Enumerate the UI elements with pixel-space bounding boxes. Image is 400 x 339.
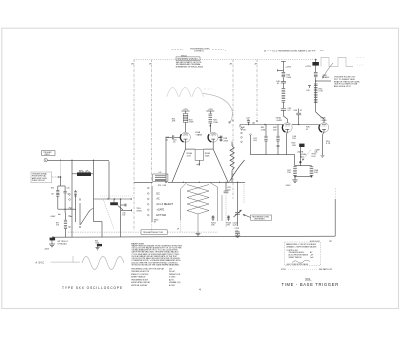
boxed note: triggering level centering xyxy=(251,215,272,220)
internal trigger pickoff pot (dark) xyxy=(72,160,94,176)
dashed linkage to selector xyxy=(68,231,141,233)
capacitor C20 xyxy=(64,191,67,193)
svg-text:470K: 470K xyxy=(223,140,228,142)
wire: right feedback vertical xyxy=(334,199,336,236)
+225V tick V24A plate xyxy=(182,109,190,114)
svg-text:27K: 27K xyxy=(226,225,230,227)
svg-text:4.7K: 4.7K xyxy=(187,155,192,157)
svg-text:CENTERING: CENTERING xyxy=(254,219,265,221)
note: trigger signal from vertical amplifier xyxy=(31,172,52,183)
R41 divider leg xyxy=(264,125,267,155)
node: cathode junction xyxy=(299,161,301,163)
R43 divider leg xyxy=(276,125,279,155)
svg-text:-150V: -150V xyxy=(285,185,291,187)
svg-text:HORIZONTAL DISPLAY: HORIZONTAL DISPLAY xyxy=(131,281,151,284)
tube V45B xyxy=(319,123,329,133)
V45A tube xyxy=(276,117,293,133)
svg-text:TYPE 5XX OSCILLOSCOPE: TYPE 5XX OSCILLOSCOPE xyxy=(62,286,123,290)
TRIGGER INPUT connector xyxy=(42,151,110,162)
svg-text:TRIGGERING MODE: TRIGGERING MODE xyxy=(131,279,149,281)
svg-text:STABILITY CONTROL: STABILITY CONTROL xyxy=(131,273,149,276)
resistor R24 network box xyxy=(195,150,204,161)
svg-text:AND DIODE V152: AND DIODE V152 xyxy=(334,85,352,88)
wafer 2R contact xyxy=(232,120,234,122)
svg-text:22K: 22K xyxy=(273,129,277,131)
trigger pulse note text (right) xyxy=(334,77,360,89)
dashed linkage to pot xyxy=(103,200,114,229)
svg-text:180: 180 xyxy=(122,215,125,217)
input attenuator branch xyxy=(51,160,76,210)
svg-text:9.0V: 9.0V xyxy=(311,156,316,158)
+225V rail 1 (V45A plate chain) xyxy=(276,62,292,123)
V24B tube xyxy=(173,132,229,143)
svg-text:NUMBERING OF SW101-SW20: NUMBERING OF SW101-SW20 xyxy=(176,66,203,68)
switch wiring lattice xyxy=(181,182,188,189)
wire: divider column xyxy=(120,199,122,237)
capacitor C44 (dark) xyxy=(312,62,319,66)
svg-text:270K: 270K xyxy=(213,122,218,124)
waveform continuation dashes xyxy=(204,88,212,90)
R21 plate resistor box xyxy=(172,114,194,133)
+100V divider to INT TRIG DC LEVEL ADJ xyxy=(44,209,69,250)
linkage line 1R xyxy=(133,60,135,231)
potentiometer: +gate level adj xyxy=(299,144,304,147)
svg-text:SET AS NOTED BELOW THE STAGE W: SET AS NOTED BELOW THE STAGE WHERE MEASU… xyxy=(132,263,181,266)
node: V24B grid xyxy=(210,125,212,127)
capacitor C45 xyxy=(309,86,311,89)
svg-text:R.W.R 12-9-57: R.W.R 12-9-57 xyxy=(310,241,320,243)
note text block under box xyxy=(176,61,203,69)
svg-text:ADJ: ADJ xyxy=(300,155,304,158)
potentiometer R302 (internal trigger) xyxy=(77,172,91,176)
capacitor C25 xyxy=(225,182,227,190)
svg-text:TRIGGERING LEVEL ADJ: TRIGGERING LEVEL ADJ xyxy=(177,58,198,61)
svg-text:-150V: -150V xyxy=(44,249,50,251)
stability pot area xyxy=(94,161,132,236)
svg-text:AC: AC xyxy=(156,198,160,201)
lower middle resistors xyxy=(226,222,232,226)
boxed note: trigger selector xyxy=(141,230,167,235)
V45 grid wire with resistors xyxy=(240,118,319,143)
boxed note: triggering level adjust xyxy=(176,57,200,61)
svg-text:+100V: +100V xyxy=(50,216,56,218)
wire: feedback loop xyxy=(250,134,252,136)
V45A cathode network xyxy=(287,132,297,154)
svg-text:NOTE:: NOTE: xyxy=(281,269,287,271)
resistor R253 body xyxy=(228,216,230,222)
resistor R41 body xyxy=(265,125,267,136)
svg-text:4.7K: 4.7K xyxy=(326,143,331,145)
potentiometer: stability xyxy=(110,202,118,205)
resistor R48 xyxy=(310,166,314,168)
svg-text:10K: 10K xyxy=(314,172,318,174)
bottom-left waveform label xyxy=(36,256,81,265)
wire: arc into trunk xyxy=(230,160,245,182)
svg-text:OBTAINED +7 APPROXIMATE VALUES: OBTAINED +7 APPROXIMATE VALUES xyxy=(286,246,317,249)
wire: V45A cathode xyxy=(286,132,289,134)
svg-text:+225V: +225V xyxy=(305,66,312,68)
svg-text:+225V: +225V xyxy=(208,109,214,111)
wire: schematic bottom bus xyxy=(53,236,335,237)
svg-text:LEVEL: LEVEL xyxy=(137,210,142,212)
dashed callout: triggering level control xyxy=(172,49,184,51)
svg-text:AC LF REJECT: AC LF REJECT xyxy=(156,203,173,206)
waveform sketch: output square wave xyxy=(321,58,353,67)
wafer 1 contacts xyxy=(69,194,71,196)
connector J20 xyxy=(44,158,47,161)
svg-text:PRESET FOR: PRESET FOR xyxy=(169,274,181,276)
wire: main trunk xyxy=(134,181,153,183)
svg-text:15K: 15K xyxy=(287,172,291,174)
top annotation: TRIGGERING LEVEL control dashed callout xyxy=(172,48,228,57)
capacitor C40 xyxy=(281,81,286,83)
waveform sketch: input sine xyxy=(82,257,124,270)
resistor R25 xyxy=(209,113,213,115)
tube V24A xyxy=(181,132,191,142)
svg-text:CONTROL SET:: CONTROL SET: xyxy=(287,250,299,252)
resistor R21 xyxy=(183,114,188,123)
svg-text:TP24: TP24 xyxy=(196,165,200,167)
svg-text:C20: C20 xyxy=(67,188,70,190)
svg-text:R20: R20 xyxy=(51,188,54,190)
svg-text:SEE PARTS LIST: SEE PARTS LIST xyxy=(319,268,332,271)
wire: attenuator join xyxy=(58,208,76,210)
TRIGGER SELECTOR dashed callout xyxy=(68,230,218,235)
wire: V45 grid bus xyxy=(240,124,283,126)
+225V supply (V24B plate) xyxy=(206,110,214,112)
cathode resistors to -150V xyxy=(285,162,319,187)
svg-text:220K: 220K xyxy=(205,155,210,157)
capacitor C23 grid xyxy=(174,136,180,138)
ground: int trig pot xyxy=(49,243,55,245)
title block xyxy=(285,242,321,266)
lower center components (C250 trimmer etc.) xyxy=(212,182,244,238)
tube V45A xyxy=(283,123,293,133)
arc from square wave to output node xyxy=(323,63,334,79)
svg-text:VERTICAL DISPLAY: VERTICAL DISPLAY xyxy=(131,284,148,287)
switch SW20 wafer 1 frame xyxy=(71,174,73,237)
main trunk wire xyxy=(134,182,245,183)
resistor R43 body + cap xyxy=(277,125,279,136)
svg-text:TBT: TBT xyxy=(329,241,332,243)
boxed note: triggering level adjust xyxy=(176,57,200,61)
svg-text:EXT 50Ω: EXT 50Ω xyxy=(156,214,166,217)
svg-text:2.2M: 2.2M xyxy=(261,129,266,131)
V45B tube xyxy=(306,118,329,133)
tap on rail xyxy=(278,69,284,71)
+GATE LEVEL pot xyxy=(297,144,318,164)
bottom notes block xyxy=(36,241,339,291)
svg-text:DC = TRIGGERING LEVEL RANGE =: DC = TRIGGERING LEVEL RANGE = 24V P-P xyxy=(273,50,317,53)
T20 coupling transformer box xyxy=(153,172,168,187)
wire: left cathode drop xyxy=(172,149,186,182)
dotted mechanical linkage line xyxy=(134,59,316,61)
ground: V45B cathode xyxy=(321,154,325,156)
wire: V24A cathode xyxy=(185,143,187,149)
ground under R47 xyxy=(292,179,297,181)
dashed arrow to input node xyxy=(52,176,59,178)
svg-text:270K: 270K xyxy=(189,122,194,124)
wire: right cathode drop xyxy=(213,149,228,182)
resistor R44 xyxy=(282,72,286,74)
title block box xyxy=(285,242,321,266)
variable capacitor C250 xyxy=(235,211,240,213)
svg-text:TRIGGERING LEVEL SET FOR DISPL: TRIGGERING LEVEL SET FOR DISPLAY xyxy=(131,267,165,270)
svg-text:CONTROL: CONTROL xyxy=(194,51,205,53)
svg-text:47K: 47K xyxy=(172,121,176,123)
svg-text:1mS: 1mS xyxy=(310,257,313,259)
wire: V45B cathode xyxy=(323,132,325,134)
ground: lattice bottom xyxy=(196,232,201,234)
svg-text:+225V: +225V xyxy=(285,67,292,69)
wire: trigger input bus xyxy=(47,159,109,161)
resistor R52 ladder xyxy=(314,83,318,85)
dashed pointer xyxy=(100,195,134,197)
test point TP24 xyxy=(198,160,200,164)
wire: attenuator drop xyxy=(60,160,62,176)
linkage line 2F xyxy=(256,60,258,119)
svg-text:NORMAL (X1): NORMAL (X1) xyxy=(169,281,181,284)
svg-text:LEVEL ADJ: LEVEL ADJ xyxy=(58,242,67,245)
resistor R49 xyxy=(314,72,318,74)
svg-text:150K: 150K xyxy=(286,77,291,79)
wire: trigger pulse output node xyxy=(316,80,331,82)
svg-text:+GATE: +GATE xyxy=(156,209,164,212)
svg-text:SWEEP TIME/CM: SWEEP TIME/CM xyxy=(289,257,303,259)
resistor R252 body xyxy=(212,216,214,222)
svg-text:10K: 10K xyxy=(211,225,215,227)
trig sens pot bottom xyxy=(95,241,102,250)
bottom table xyxy=(131,267,181,287)
arc from waveform to V24B grid xyxy=(203,94,232,124)
trigger signal from vertical amplifier note xyxy=(31,172,61,183)
svg-text:1.8K: 1.8K xyxy=(292,145,297,147)
svg-text:R20: R20 xyxy=(158,185,161,187)
resistor R47 xyxy=(293,166,297,168)
wire: stability branch xyxy=(108,161,110,199)
linkage line 2R xyxy=(232,60,234,119)
top annotation right: DC triggering level range xyxy=(264,50,324,53)
resistor R20 xyxy=(56,190,59,192)
potentiometer: int trig dc level adj xyxy=(50,238,56,241)
zigzag resistor on linkage column xyxy=(230,142,234,183)
svg-text:INT. AC: INT. AC xyxy=(169,270,176,273)
svg-text:TRIGGER SELECTOR: TRIGGER SELECTOR xyxy=(131,271,150,273)
svg-text:2.2K: 2.2K xyxy=(319,91,324,93)
R252 R253 labels xyxy=(211,222,217,226)
switch wafer 1 contacts xyxy=(69,174,102,237)
svg-text:AUTO.: AUTO. xyxy=(169,278,175,281)
svg-text:561: 561 xyxy=(306,277,311,281)
svg-text:TRIGGERING MODE: TRIGGERING MODE xyxy=(289,252,304,254)
svg-text:270K: 270K xyxy=(241,129,246,131)
C23 grid cap xyxy=(165,135,180,182)
wire: feedback line (faint) xyxy=(334,188,336,199)
wafer 2F contact xyxy=(256,120,258,122)
linkage line 1F lower xyxy=(151,222,153,232)
linkage line 1F xyxy=(151,60,153,186)
ground: C251 xyxy=(235,234,240,236)
svg-text:R302: R302 xyxy=(79,170,83,172)
+225V rail 2 (V45B plate chain) xyxy=(305,59,330,123)
tube V24B xyxy=(208,132,218,142)
svg-text:INPUT: INPUT xyxy=(45,154,51,156)
waveform sketch: sine humps xyxy=(167,88,204,97)
trigger input connector label box xyxy=(42,151,56,156)
V24 cathode coupling network xyxy=(186,143,214,167)
wafer 1 wiper xyxy=(81,212,90,225)
resistor R44B ladder xyxy=(282,88,286,90)
capacitor C41 xyxy=(247,120,250,122)
triggering level centering callout box xyxy=(243,214,272,220)
wire: C250 column xyxy=(237,182,239,212)
switch SW20 wafer 2 contacts xyxy=(148,187,150,189)
resistor R27 xyxy=(64,219,67,221)
node: divider junction xyxy=(52,236,54,238)
resistor R254 zigzag xyxy=(231,142,233,147)
svg-text:+UP: +UP xyxy=(310,255,313,257)
svg-text:5 mSEC: 5 mSEC xyxy=(169,277,176,279)
svg-text:SWEEP TIME/CM: SWEEP TIME/CM xyxy=(131,277,146,279)
V24A tube xyxy=(180,131,202,143)
svg-text:A ONLY: A ONLY xyxy=(169,284,176,287)
wafer 2F contact column xyxy=(241,128,243,130)
svg-text:PLATE CIRCUIT: PLATE CIRCUIT xyxy=(32,179,46,182)
svg-text:A.SVC: A.SVC xyxy=(36,262,45,265)
C43 coupling column between V45 grids xyxy=(293,109,303,125)
svg-text:DC: DC xyxy=(156,192,160,195)
svg-text:1 MEG: 1 MEG xyxy=(323,77,330,79)
svg-text:TRIGGER SELECTOR: TRIGGER SELECTOR xyxy=(143,232,164,234)
switch wafer 2 with source labels xyxy=(137,186,174,224)
V24B plate chain xyxy=(206,109,218,132)
svg-text:TIME - BASE TRIGGER: TIME - BASE TRIGGER xyxy=(282,282,339,287)
phase splitter butterfly (crossed switch wiring) xyxy=(177,182,217,236)
capacitor C43 xyxy=(298,109,300,113)
wire: pot feed xyxy=(71,160,73,174)
V45B cathode branch xyxy=(315,132,331,157)
